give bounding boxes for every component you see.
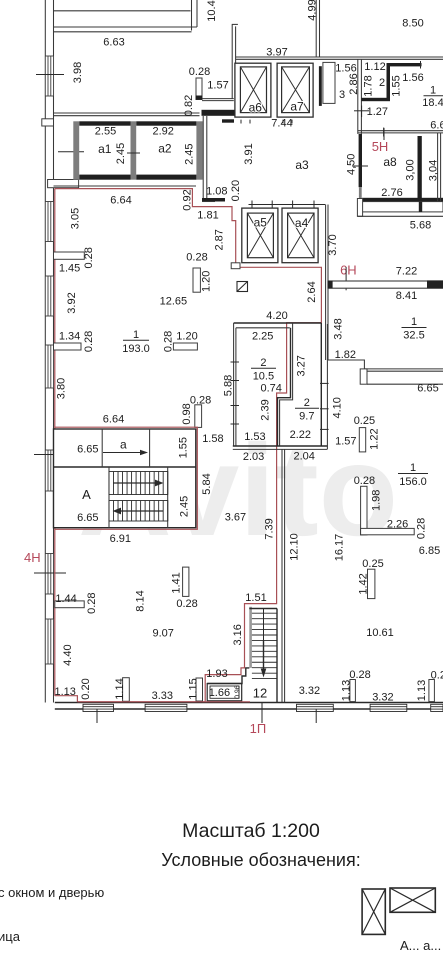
wall horizontal at 0.82 stub xyxy=(202,98,234,100)
balcony a8 left cap xyxy=(357,199,362,217)
svg-text:1.22: 1.22 xyxy=(368,428,380,449)
svg-text:5.84: 5.84 xyxy=(201,473,213,494)
svg-text:1.58: 1.58 xyxy=(202,433,223,445)
balcony wall top hatched a1 xyxy=(79,121,130,125)
svg-text:10.4: 10.4 xyxy=(206,0,218,21)
svg-text:6.85: 6.85 xyxy=(419,545,440,557)
svg-text:10.61: 10.61 xyxy=(366,627,394,639)
balcony pillar left xyxy=(73,121,79,179)
svg-text:2.03: 2.03 xyxy=(243,451,264,463)
svg-text:6.65: 6.65 xyxy=(430,119,443,131)
stair12 left wall xyxy=(249,607,252,668)
svg-text:9.7: 9.7 xyxy=(299,411,314,423)
wall 4.99 vertical xyxy=(315,0,317,58)
svg-text:4.99: 4.99 xyxy=(307,0,319,21)
svg-text:8.41: 8.41 xyxy=(396,290,417,302)
svg-text:0.92: 0.92 xyxy=(181,189,193,210)
svg-text:3.80: 3.80 xyxy=(56,378,68,399)
window W5 in left wall xyxy=(45,450,54,491)
svg-text:2: 2 xyxy=(304,397,310,409)
wall stub right bottom 2 xyxy=(429,680,435,702)
box 1.66 xyxy=(207,684,242,701)
window W3 in left wall xyxy=(45,276,54,316)
stairwell corridor line xyxy=(54,466,196,468)
wall room2 right band ticks xyxy=(320,383,329,429)
wall stub 0.82 dark base xyxy=(196,96,203,100)
svg-text:1.44: 1.44 xyxy=(55,593,76,605)
svg-text:1.20: 1.20 xyxy=(176,331,197,343)
svg-text:1.78: 1.78 xyxy=(363,75,375,96)
legend symbol shaft vertical xyxy=(362,889,385,934)
svg-text:6.65: 6.65 xyxy=(77,512,98,524)
svg-text:12: 12 xyxy=(253,686,267,701)
wall a8 middle hatched xyxy=(418,136,422,202)
svg-text:1.20: 1.20 xyxy=(201,271,213,292)
window W7 in left wall xyxy=(45,619,54,664)
wall left inner line xyxy=(53,0,55,703)
svg-text:1.57: 1.57 xyxy=(207,79,228,91)
svg-text:1.53: 1.53 xyxy=(244,431,265,443)
svg-text:2: 2 xyxy=(379,77,385,89)
svg-text:1: 1 xyxy=(133,329,139,341)
svg-text:8.14: 8.14 xyxy=(135,590,147,611)
svg-text:6.64: 6.64 xyxy=(110,194,131,206)
stair12 steps xyxy=(252,613,277,678)
ticks below elevators a6 a7 xyxy=(241,120,292,124)
svg-text:a3: a3 xyxy=(295,158,309,172)
dimension tick 3.98 xyxy=(36,74,64,76)
svg-text:9.07: 9.07 xyxy=(152,628,173,640)
svg-text:А: А xyxy=(82,487,91,502)
svg-text:2.45: 2.45 xyxy=(184,143,196,164)
svg-text:2.55: 2.55 xyxy=(95,126,116,138)
wall room2 partition xyxy=(278,328,291,446)
svg-text:1.13: 1.13 xyxy=(416,680,428,701)
svg-text:5Н: 5Н xyxy=(372,139,389,154)
wall top of room 6.63 xyxy=(54,26,198,28)
tick above 5H xyxy=(383,128,385,140)
svg-text:1.55: 1.55 xyxy=(391,75,403,96)
svg-text:1.98: 1.98 xyxy=(370,490,382,511)
wall left outer line xyxy=(44,0,46,703)
stair flight lower arrow xyxy=(113,508,164,515)
wall stub 1.15 xyxy=(196,678,203,701)
svg-text:3.32: 3.32 xyxy=(299,685,320,697)
red boundary bottom wall xyxy=(77,701,250,703)
svg-text:1.13: 1.13 xyxy=(54,686,75,698)
tick at middle pillar xyxy=(127,152,140,154)
svg-text:0.25: 0.25 xyxy=(362,558,383,570)
corridor arrow xyxy=(103,450,148,456)
svg-text:10.5: 10.5 xyxy=(253,371,274,383)
svg-text:a4: a4 xyxy=(295,216,309,230)
balcony wall bottom hatched a2 xyxy=(136,175,196,180)
wall room2 right band xyxy=(320,323,322,446)
stair landing verticals xyxy=(108,467,110,528)
wall stub 1.20 vertical xyxy=(193,268,200,292)
window bottom wall 1 xyxy=(83,704,114,711)
wall stub 1.22 xyxy=(359,428,365,452)
window W2 in left wall xyxy=(45,202,54,242)
wall stub 1.41 vertical xyxy=(183,567,189,596)
svg-text:6.63: 6.63 xyxy=(103,37,124,49)
svg-text:3.32: 3.32 xyxy=(372,692,393,704)
window bottom wall 2 xyxy=(145,704,187,711)
svg-text:7.39: 7.39 xyxy=(264,518,276,539)
svg-text:1.15: 1.15 xyxy=(188,678,200,699)
wall stub 0.98 xyxy=(195,405,202,428)
wall step 1.82 xyxy=(328,360,443,369)
wall dark block right of 6.63 room xyxy=(202,110,239,116)
svg-text:1.57: 1.57 xyxy=(335,435,356,447)
svg-text:12.10: 12.10 xyxy=(289,533,301,561)
svg-text:2.87: 2.87 xyxy=(213,229,225,250)
svg-text:1: 1 xyxy=(410,462,416,474)
svg-text:0.96: 0.96 xyxy=(234,685,241,699)
svg-text:6.91: 6.91 xyxy=(110,533,131,545)
tick 4,50 xyxy=(352,165,368,167)
svg-text:1: 1 xyxy=(430,85,436,97)
svg-text:1.82: 1.82 xyxy=(335,349,356,361)
stairwell red outline xyxy=(55,427,198,529)
svg-text:32.5: 32.5 xyxy=(403,330,424,342)
wall thick vertical room 2 xyxy=(387,63,391,99)
svg-text:с окном и дверью: с окном и дверью xyxy=(0,885,104,900)
wall hatched stub right of a7 xyxy=(319,66,322,106)
dimension tick a1 pillar xyxy=(58,151,84,153)
red boundary left wall xyxy=(54,189,56,696)
dimension line above elevators xyxy=(249,201,326,209)
svg-text:1П: 1П xyxy=(250,721,267,736)
svg-text:a8: a8 xyxy=(383,155,397,169)
wall right of elevators xyxy=(325,205,327,361)
tick 6H xyxy=(345,267,347,290)
wall left of a3 xyxy=(202,116,204,202)
svg-text:a5: a5 xyxy=(254,216,268,230)
svg-text:0.74: 0.74 xyxy=(260,382,281,394)
elevator a7 xyxy=(277,63,313,117)
svg-text:1.55: 1.55 xyxy=(178,437,190,458)
svg-text:0.28: 0.28 xyxy=(83,331,95,352)
tick below 12 xyxy=(261,703,263,724)
wall pillar left of room 3 xyxy=(323,62,335,103)
wall top room interior line xyxy=(54,10,191,12)
window bottom wall 3 xyxy=(297,704,334,711)
svg-text:Условные обозначения:: Условные обозначения: xyxy=(161,850,360,870)
wall bottom of room 6.63 xyxy=(54,112,200,114)
wall bottom outer band xyxy=(55,702,443,704)
wall room2 left ticks xyxy=(231,362,240,424)
balcony pillar right xyxy=(196,121,202,179)
svg-text:0.28: 0.28 xyxy=(189,66,210,78)
svg-text:2.25: 2.25 xyxy=(252,331,273,343)
svg-text:1.56: 1.56 xyxy=(335,63,356,75)
svg-text:0.28: 0.28 xyxy=(83,247,95,268)
wall L stub vertical xyxy=(361,486,367,535)
svg-text:1: 1 xyxy=(411,316,417,328)
svg-text:4.10: 4.10 xyxy=(332,397,344,418)
svg-text:А... а... а: А... а... а xyxy=(400,938,443,953)
room area label 1 over 18.4 xyxy=(422,85,443,110)
stair12 top line xyxy=(249,608,277,610)
red boundary under balconies xyxy=(55,189,322,702)
svg-text:a1: a1 xyxy=(98,142,112,156)
wall stub 1.44 xyxy=(55,601,84,608)
wall vertical between top rooms xyxy=(191,0,193,31)
svg-text:0.28: 0.28 xyxy=(349,669,370,681)
svg-text:6.64: 6.64 xyxy=(103,413,124,425)
svg-text:3.98: 3.98 xyxy=(72,62,84,83)
stairwell corridor divider 2 xyxy=(149,429,151,467)
svg-text:1.13: 1.13 xyxy=(340,680,352,701)
svg-text:8.50: 8.50 xyxy=(402,18,423,30)
stair flight lower xyxy=(109,501,168,522)
svg-text:2.45: 2.45 xyxy=(115,143,127,164)
wall thick bottom room 2 xyxy=(361,98,390,101)
wall left of elevator a6 column xyxy=(231,24,233,99)
svg-text:3.92: 3.92 xyxy=(66,292,78,313)
balcony wall bottom hatched a1 xyxy=(79,175,130,180)
stair12 center line xyxy=(263,609,265,671)
svg-text:7.22: 7.22 xyxy=(396,265,417,277)
tick crossing y131 wall xyxy=(383,128,385,137)
tick below wall x316 xyxy=(315,709,317,723)
stair12 right wall xyxy=(276,609,278,703)
svg-text:a: a xyxy=(120,438,127,452)
svg-text:3,00: 3,00 xyxy=(405,159,417,180)
svg-text:0.28: 0.28 xyxy=(186,252,207,264)
svg-text:3.91: 3.91 xyxy=(243,143,255,164)
svg-text:4.20: 4.20 xyxy=(266,310,287,322)
stair flight upper arrow xyxy=(113,480,164,487)
svg-text:0.28: 0.28 xyxy=(86,592,98,613)
svg-text:3.05: 3.05 xyxy=(70,208,82,229)
wall room2 inner top xyxy=(236,327,290,329)
svg-text:2.76: 2.76 xyxy=(381,187,402,199)
wall a8 bottom hatched xyxy=(362,198,443,202)
wall below balconies xyxy=(54,185,197,187)
svg-text:3.48: 3.48 xyxy=(333,318,345,339)
wall thick black bottom of a3 wall xyxy=(202,198,225,202)
stair flight upper xyxy=(109,472,168,495)
wall jog above balcony a1 xyxy=(48,180,79,188)
svg-text:0.25: 0.25 xyxy=(354,415,375,427)
svg-text:3.27: 3.27 xyxy=(295,355,307,376)
wall room2 top xyxy=(234,322,322,324)
svg-text:a7: a7 xyxy=(290,100,304,114)
svg-text:2.04: 2.04 xyxy=(293,451,314,463)
svg-text:0.28: 0.28 xyxy=(176,598,197,610)
wall horizontal y57 across xyxy=(236,56,443,58)
legend symbol shaft horizontal xyxy=(390,888,435,912)
wall pilaster notch xyxy=(360,369,367,384)
elevator a5 xyxy=(242,208,278,263)
elevator a6 xyxy=(235,63,271,117)
svg-text:0.20: 0.20 xyxy=(230,180,242,201)
wall room2 left xyxy=(233,323,235,446)
svg-text:6.65: 6.65 xyxy=(77,444,98,456)
svg-text:3.16: 3.16 xyxy=(232,624,244,645)
room area label 1 over 193.0 xyxy=(122,329,150,355)
dimension tick 4H xyxy=(34,572,66,574)
svg-text:Масштаб 1:200: Масштаб 1:200 xyxy=(182,820,320,842)
room area label 1 over 32.5 xyxy=(402,316,427,342)
wall lower line 6.65 xyxy=(367,383,443,385)
dimension tick 1.27 xyxy=(354,106,369,118)
svg-text:3.70: 3.70 xyxy=(327,234,339,255)
svg-text:2.64: 2.64 xyxy=(306,281,318,302)
svg-text:0.28: 0.28 xyxy=(354,475,375,487)
svg-text:1.08: 1.08 xyxy=(206,186,227,198)
wall horizontal y131.7 right xyxy=(358,130,443,132)
balcony a8 outer line xyxy=(357,215,443,217)
svg-text:1.27: 1.27 xyxy=(367,106,388,118)
tick below wall left xyxy=(96,709,98,723)
window W6 in left wall xyxy=(45,554,54,595)
wall stub 1.20 horizontal xyxy=(173,343,197,350)
svg-text:1.45: 1.45 xyxy=(59,263,80,275)
room area label 2 over 9.7 xyxy=(295,397,319,423)
dimension tick stair xyxy=(34,454,66,456)
balcony a8 band xyxy=(363,202,443,212)
stairwell corridor divider 1 xyxy=(101,429,103,467)
svg-text:2.39: 2.39 xyxy=(260,399,272,420)
wall stub 1.14 xyxy=(123,678,130,702)
svg-text:0.28: 0.28 xyxy=(416,518,428,539)
wall room2 bottom band xyxy=(233,445,328,447)
svg-text:6.65: 6.65 xyxy=(417,383,438,395)
svg-text:2.86: 2.86 xyxy=(348,73,360,94)
svg-text:12.65: 12.65 xyxy=(160,295,188,307)
svg-text:0.28: 0.28 xyxy=(163,331,175,352)
room area label 2 over 10.5 xyxy=(251,357,276,383)
svg-text:1.66: 1.66 xyxy=(209,687,230,699)
svg-text:1.41: 1.41 xyxy=(170,572,182,593)
room area label 1 over 156.0 xyxy=(398,462,428,488)
svg-text:156.0: 156.0 xyxy=(399,476,427,488)
window bottom wall 5 xyxy=(431,704,443,711)
window W1 in left wall xyxy=(45,56,54,96)
svg-text:1.14: 1.14 xyxy=(114,678,126,699)
svg-text:4,50: 4,50 xyxy=(346,154,358,175)
svg-text:193.0: 193.0 xyxy=(122,343,150,355)
svg-text:3.33: 3.33 xyxy=(152,690,173,702)
wall a8 left hatched xyxy=(359,134,362,187)
svg-text:3.67: 3.67 xyxy=(225,511,246,523)
svg-text:2.45: 2.45 xyxy=(179,496,191,517)
wall stub 1.34 xyxy=(54,343,82,350)
svg-text:16.17: 16.17 xyxy=(334,534,346,562)
balcony wall top hatched a2 xyxy=(136,121,196,125)
wall corridor vertical double xyxy=(281,449,283,702)
svg-text:5.68: 5.68 xyxy=(410,220,431,232)
svg-text:7.44: 7.44 xyxy=(271,118,292,130)
svg-text:a6: a6 xyxy=(249,101,263,115)
svg-text:2.92: 2.92 xyxy=(152,126,173,138)
svg-text:1.56: 1.56 xyxy=(402,72,423,84)
wall stub 0.82 xyxy=(196,78,202,100)
svg-text:2.26: 2.26 xyxy=(387,518,408,530)
svg-text:1.34: 1.34 xyxy=(59,331,80,343)
wall thick top of room 2 xyxy=(387,63,422,66)
wall L stub horizontal xyxy=(361,528,415,534)
svg-text:1.81: 1.81 xyxy=(197,210,218,222)
svg-text:6Н: 6Н xyxy=(340,262,357,277)
svg-text:0.20: 0.20 xyxy=(80,678,92,699)
svg-text:4Н: 4Н xyxy=(24,550,41,565)
balcony pillar middle xyxy=(131,121,137,179)
wall right edge x438 xyxy=(437,133,439,202)
svg-text:0.82: 0.82 xyxy=(183,95,195,116)
svg-text:0.2: 0.2 xyxy=(431,670,443,682)
wall jog at 6.63 room bottom xyxy=(42,119,54,126)
wall dark block left of elevators xyxy=(222,119,234,122)
svg-text:5.88: 5.88 xyxy=(222,375,234,396)
svg-text:1.51: 1.51 xyxy=(245,592,266,604)
elevator a4 xyxy=(282,208,318,263)
svg-text:a2: a2 xyxy=(158,141,172,155)
window W4 in left wall xyxy=(45,345,54,388)
wall stub below a5 xyxy=(231,263,240,269)
stair12 down arrow xyxy=(261,640,267,678)
wall stub right bottom 1 xyxy=(350,680,356,702)
svg-text:4.40: 4.40 xyxy=(62,644,74,665)
tick end of thick wall xyxy=(420,61,422,69)
wall band y281 right xyxy=(328,280,443,288)
svg-text:18.4: 18.4 xyxy=(422,97,443,109)
svg-text:2: 2 xyxy=(260,357,266,369)
stair12 bottom jog wall xyxy=(207,668,249,684)
vent shaft square xyxy=(237,282,248,292)
wall vertical x359 room3 right xyxy=(357,59,359,134)
wall stub 1.45 xyxy=(54,252,85,259)
svg-text:1.12: 1.12 xyxy=(364,61,385,73)
svg-text:1.42: 1.42 xyxy=(358,573,370,594)
svg-text:ица: ица xyxy=(0,929,21,944)
wall stub 1.42 xyxy=(368,569,375,598)
svg-text:2.22: 2.22 xyxy=(290,429,311,441)
stairwell outer box xyxy=(54,429,196,528)
window bottom wall 4 xyxy=(370,704,407,711)
svg-text:3: 3 xyxy=(339,89,345,101)
svg-text:1.93: 1.93 xyxy=(206,668,227,680)
